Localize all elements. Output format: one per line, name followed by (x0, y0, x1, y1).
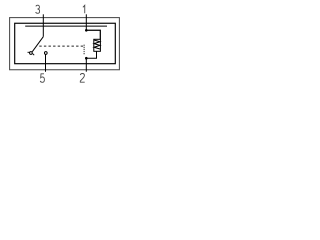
pin 1 label (83, 5, 85, 13)
stationary contact circle (44, 52, 47, 55)
wire pin 5 vertical (45, 54, 47, 71)
wire pin 2 vertical (85, 58, 87, 71)
switch lever overshoot tick (33, 54, 35, 56)
switch pivot contact circle (30, 52, 33, 55)
pin 5 label (40, 74, 44, 83)
wire pin 3 vertical (42, 14, 44, 36)
switch pivot stub wire (28, 51, 30, 53)
separator line (inner top second line) (25, 25, 107, 27)
wire coil bottom (86, 51, 96, 58)
mechanical link dashed horizontal (39, 45, 84, 47)
junction dot node coil top (85, 29, 88, 32)
relay outer outline (10, 18, 120, 70)
switch lever (32, 37, 43, 52)
pin 3 label (36, 5, 40, 13)
mechanical link dashed vertical (83, 45, 85, 55)
coil winding zigzag (94, 40, 100, 49)
junction dot node coil bottom (85, 57, 88, 60)
relay inner frame (15, 23, 116, 63)
wire pin 1 vertical (85, 14, 87, 30)
wire junction to coil top (86, 30, 100, 39)
pin 2 label (80, 74, 84, 83)
coil box K1 (94, 39, 101, 51)
